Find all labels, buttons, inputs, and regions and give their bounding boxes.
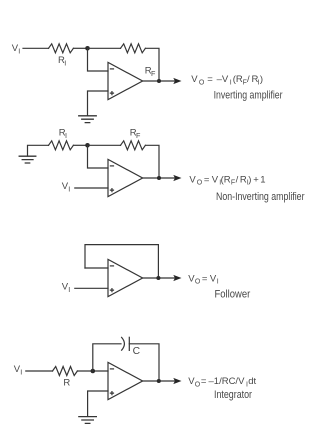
svg-text:–V: –V [217, 74, 229, 85]
svg-text:1: 1 [260, 174, 265, 185]
junction output node (circuit 1) [157, 79, 161, 83]
op-amp U4 [108, 362, 143, 399]
svg-text:V: V [191, 74, 198, 85]
svg-text:+: + [253, 174, 259, 185]
wire output (circuit 1) [143, 80, 176, 82]
svg-text:I: I [217, 279, 219, 286]
ground (circuit 2 input) [19, 156, 36, 163]
svg-text:Integrator: Integrator [214, 389, 252, 401]
wire summing node to RF [88, 47, 121, 49]
junction feedback node (circuit 2) [85, 143, 90, 148]
svg-text:I: I [230, 79, 232, 86]
equation VO = VI(RF/RI) + 1 [189, 174, 265, 186]
svg-text:/: / [247, 74, 250, 85]
svg-text:O: O [197, 180, 203, 187]
junction summing node (circuit 1) [85, 46, 90, 51]
wire RI to summing node [73, 47, 87, 49]
resistor RI (input) [49, 44, 74, 53]
svg-text:O: O [195, 279, 201, 286]
junction output node (circuit 4) [157, 379, 161, 383]
wire inverting input (circuit 1) [88, 48, 109, 71]
svg-text:O: O [195, 381, 201, 388]
wire output (circuit 3) [143, 277, 176, 279]
wire inverting input (circuit 2) [88, 145, 109, 168]
svg-text:dt: dt [248, 376, 256, 387]
junction output node (circuit 2) [157, 176, 161, 180]
resistor RF (circuit 2) [121, 141, 146, 150]
U3 minus pin mark [110, 265, 113, 267]
equation VO = VI [188, 273, 219, 285]
svg-text:I: I [65, 131, 67, 140]
wire output (circuit 2) [143, 177, 176, 179]
svg-text:I: I [64, 59, 66, 68]
svg-text:Non-Inverting amplifier: Non-Inverting amplifier [216, 191, 305, 203]
svg-text:): ) [248, 174, 251, 185]
wire noninverting input to ground (circuit 4) [88, 391, 108, 416]
junction output node (circuit 3) [156, 276, 160, 280]
wire output (circuit 4) [143, 380, 176, 382]
U4 minus pin mark [110, 368, 113, 370]
node VI input label (circuit 3) [62, 282, 71, 295]
svg-text:I: I [18, 47, 20, 56]
svg-text:I: I [68, 285, 70, 294]
label RF (circuit 2) [130, 128, 141, 141]
wire RF to output node [145, 48, 159, 81]
wire VI to noninverting input (circuit 3) [75, 287, 108, 289]
wire VI to R (circuit 4) [26, 370, 53, 372]
wire RI to node (circuit 2) [73, 144, 87, 146]
U1 plus pin mark [110, 92, 113, 95]
svg-text:(R: (R [221, 174, 231, 185]
svg-text:=: = [201, 376, 207, 387]
svg-text:/: / [236, 174, 239, 185]
U2 plus pin mark [110, 189, 113, 192]
node VI input label (circuit 1) [12, 43, 20, 56]
svg-text:=: = [202, 273, 208, 284]
wire ground to RI (circuit 2) [28, 145, 49, 156]
resistor RF (feedback) [121, 44, 146, 53]
svg-text:I: I [20, 368, 22, 377]
output arrow (circuit 1) [173, 78, 181, 84]
label RI (circuit 2) [59, 128, 67, 141]
equation VO = -1/RC integral VI dt [188, 376, 256, 388]
capacitor C curved plate [122, 337, 125, 350]
junction summing node (circuit 4) [91, 369, 96, 374]
output arrow (circuit 4) [173, 378, 181, 384]
capacitor C flat plate [128, 337, 130, 350]
wire feedback loop (circuit 3) [85, 245, 158, 278]
label RF [145, 65, 156, 78]
op-amp U2 [108, 159, 143, 196]
wire VI to R_I [23, 47, 49, 49]
ground (circuit 1) [79, 116, 97, 123]
U4 plus pin mark [110, 392, 113, 395]
svg-text:(R: (R [233, 74, 243, 85]
resistor R (circuit 4) [53, 367, 78, 376]
node VI input label (circuit 2) [62, 181, 71, 194]
output arrow (circuit 3) [173, 275, 181, 281]
svg-text:Inverting amplifier: Inverting amplifier [214, 90, 283, 102]
wire capacitor to output (circuit 4) [129, 344, 159, 381]
wire R to inverting input (circuit 4) [77, 370, 108, 372]
op-amp U1 [108, 62, 143, 99]
output arrow (circuit 2) [173, 175, 181, 181]
U2 minus pin mark [110, 165, 113, 167]
ground (circuit 4) [79, 417, 97, 424]
svg-text:–1/RC/V: –1/RC/V [209, 376, 246, 387]
svg-text:R: R [63, 378, 70, 389]
wire noninverting input to ground (circuit 1) [88, 91, 109, 116]
equation VO = -VI(RF/RI) [191, 74, 263, 86]
svg-text:O: O [199, 79, 205, 86]
svg-text:V: V [212, 174, 219, 185]
svg-text:I: I [68, 185, 70, 194]
wire VI to noninverting input (circuit 2) [75, 187, 108, 189]
U3 plus pin mark [110, 289, 113, 292]
svg-text:V: V [189, 174, 196, 185]
svg-text:F: F [151, 69, 156, 78]
svg-text:Follower: Follower [215, 289, 251, 301]
resistor RI (circuit 2) [49, 141, 74, 150]
U1 minus pin mark [110, 68, 113, 70]
wire inverting input (circuit 3) [85, 267, 108, 269]
op-amp U3 [108, 259, 143, 296]
label RI [58, 55, 66, 68]
svg-text:): ) [260, 74, 263, 85]
svg-text:=: = [207, 74, 213, 85]
wire RF to output (circuit 2) [145, 145, 159, 178]
svg-text:C: C [133, 346, 141, 357]
node VI input label (circuit 4) [14, 364, 22, 377]
svg-text:F: F [231, 180, 235, 187]
wire node to RF (circuit 2) [88, 144, 121, 146]
svg-text:=: = [204, 174, 210, 185]
wire feedback loop left (circuit 4) [93, 344, 121, 371]
svg-text:F: F [136, 131, 141, 140]
